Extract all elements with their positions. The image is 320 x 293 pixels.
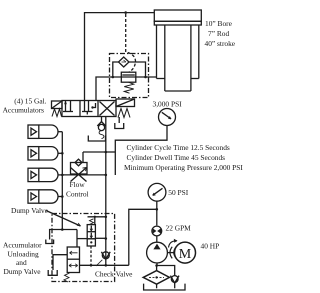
svg-text:Flow: Flow: [70, 180, 86, 189]
svg-text:Unloading: Unloading: [8, 249, 40, 258]
svg-text:40 HP: 40 HP: [201, 241, 220, 250]
svg-text:10” Bore: 10” Bore: [205, 19, 233, 28]
svg-text:7” Rod: 7” Rod: [208, 29, 229, 38]
svg-text:Dump Valve: Dump Valve: [4, 267, 42, 276]
svg-text:40” stroke: 40” stroke: [205, 39, 236, 48]
svg-text:Accumulators: Accumulators: [3, 106, 45, 115]
svg-text:22 GPM: 22 GPM: [166, 224, 192, 233]
svg-text:3,000 PSI: 3,000 PSI: [153, 99, 183, 108]
svg-text:Accumulator: Accumulator: [3, 240, 42, 249]
svg-text:Cylinder Dwell Time 45 Seconds: Cylinder Dwell Time 45 Seconds: [127, 153, 226, 162]
svg-text:and: and: [16, 258, 27, 267]
svg-text:M: M: [179, 247, 192, 262]
svg-text:(4) 15 Gal.: (4) 15 Gal.: [14, 97, 46, 106]
svg-text:Minimum Operating Pressure 2,0: Minimum Operating Pressure 2,000 PSI: [124, 163, 243, 172]
svg-text:Dump Valve: Dump Valve: [11, 206, 49, 215]
svg-text:Control: Control: [66, 189, 89, 198]
svg-text:50 PSI: 50 PSI: [168, 188, 188, 197]
svg-text:Check Valve: Check Valve: [95, 269, 133, 278]
svg-text:Cylinder Cycle Time 12.5 Secon: Cylinder Cycle Time 12.5 Seconds: [127, 143, 230, 152]
